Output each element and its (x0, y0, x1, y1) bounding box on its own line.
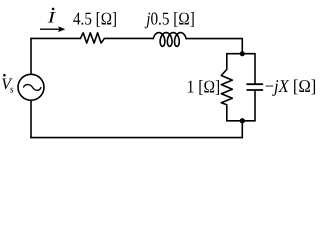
current arrow (40, 27, 65, 32)
wire bottom horizontal (31, 137, 242, 139)
inductor L j0.5ohm coil (153, 33, 186, 47)
svg-text:j0.5 [Ω]: j0.5 [Ω] (145, 9, 195, 29)
capacitor branch top lead (254, 54, 256, 84)
bottom node bar (227, 120, 255, 122)
svg-text:s: s (10, 84, 14, 95)
svg-text:4.5 [Ω]: 4.5 [Ω] (73, 9, 117, 29)
source sine wave (24, 85, 41, 91)
wire top-left horizontal (31, 37, 81, 39)
svg-text:−jX [Ω]: −jX [Ω] (265, 76, 317, 96)
resistor 1ohm branch vertical zigzag (221, 54, 232, 121)
wire left vertical below source (30, 100, 32, 137)
wire inductor to top-right corner (186, 39, 242, 54)
source Vs circle (18, 74, 44, 100)
svg-text:1 [Ω]: 1 [Ω] (187, 76, 221, 96)
wire bottom-right vertical (241, 121, 243, 138)
capacitor branch bottom lead (254, 90, 256, 121)
capacitor bottom plate (247, 89, 262, 91)
capacitor top plate (247, 83, 262, 85)
resistor R 4.5ohm zigzag (80, 33, 104, 43)
junction dot bottom (240, 118, 245, 123)
junction dot top (240, 51, 245, 56)
wire between resistor and inductor (104, 37, 153, 39)
wire left vertical above source (30, 38, 32, 74)
label I dot (52, 8, 55, 11)
svg-text:I: I (46, 9, 55, 26)
top node bar (227, 53, 255, 55)
label Vs dot (3, 74, 6, 77)
